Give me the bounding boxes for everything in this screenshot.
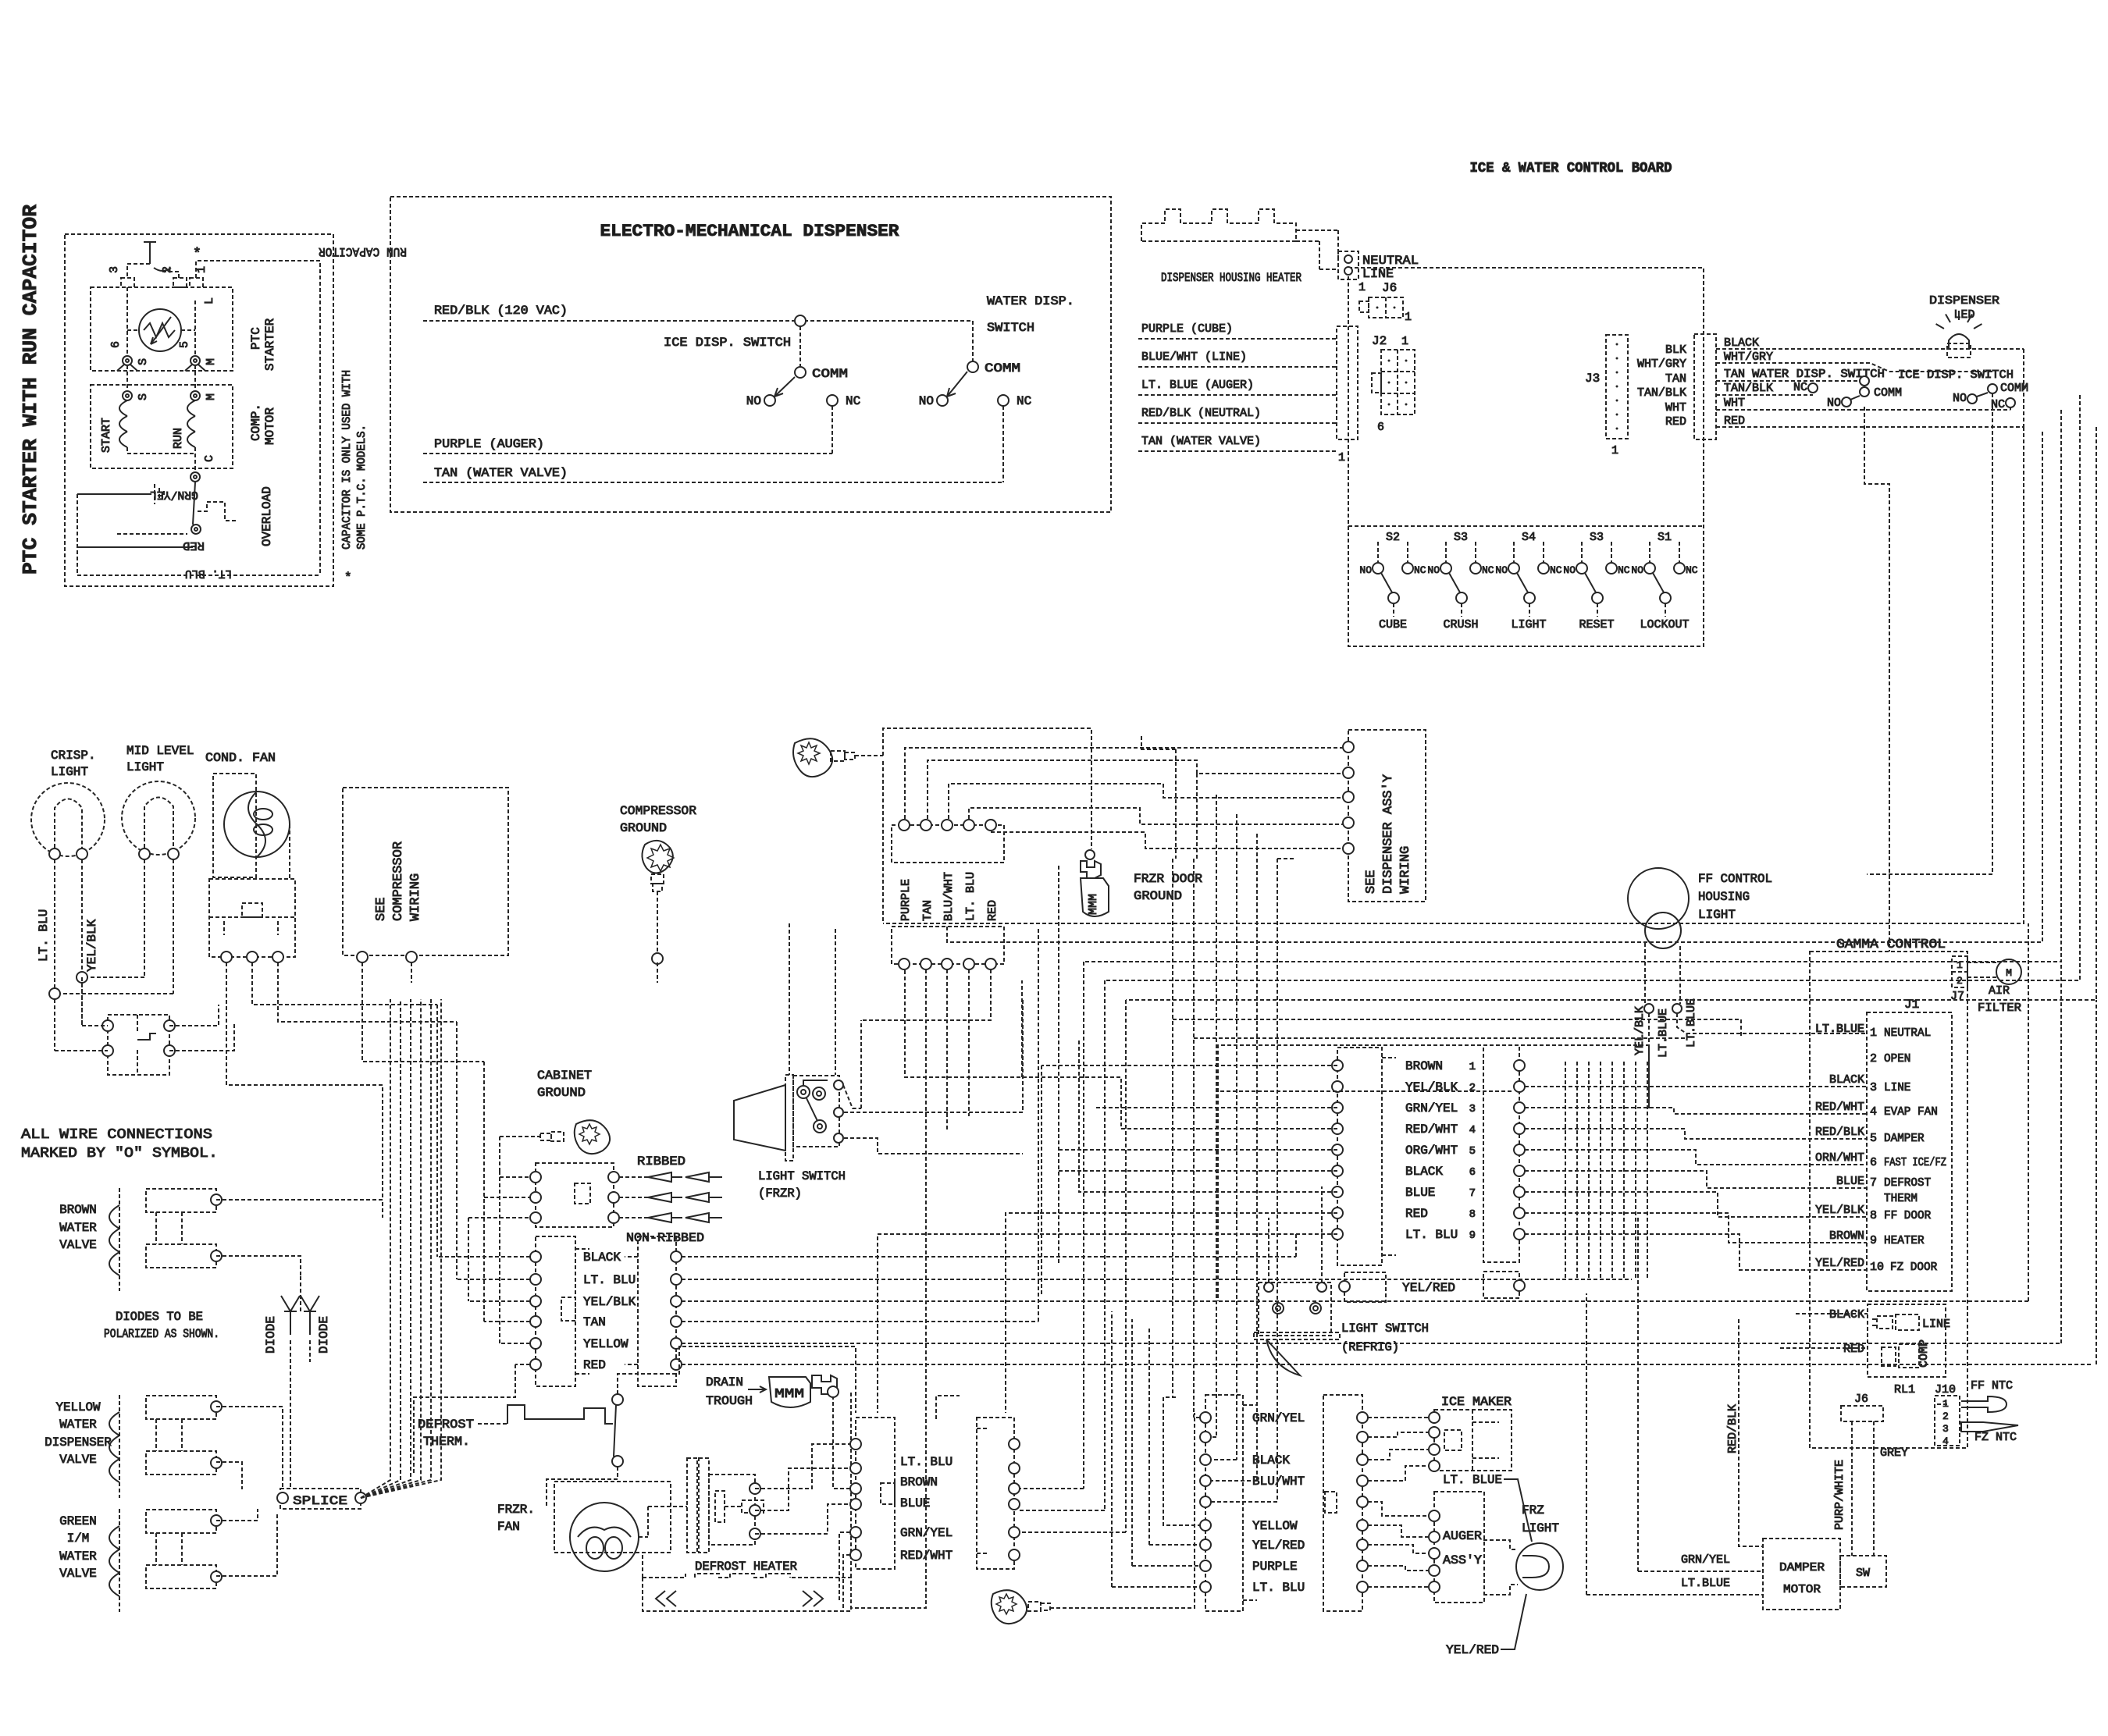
svg-text:RED: RED — [1665, 415, 1686, 429]
svg-text:BLUE/WHT (LINE): BLUE/WHT (LINE) — [1141, 350, 1247, 364]
svg-text:YELLOW: YELLOW — [1252, 1519, 1298, 1533]
svg-text:RED: RED — [1724, 414, 1745, 428]
svg-text:LIGHT: LIGHT — [126, 760, 164, 774]
svg-text:J3: J3 — [1585, 372, 1600, 386]
svg-text:DAMPER: DAMPER — [1779, 1561, 1825, 1574]
svg-text:BROWN: BROWN — [1829, 1229, 1864, 1243]
svg-text:YEL/BLK: YEL/BLK — [583, 1295, 636, 1309]
svg-text:1: 1 — [1338, 451, 1345, 464]
svg-text:COMPRESSOR: COMPRESSOR — [620, 804, 696, 818]
svg-text:I/M: I/M — [67, 1531, 90, 1546]
svg-text:LT.BLUE: LT.BLUE — [1685, 998, 1698, 1048]
svg-text:S3: S3 — [1590, 531, 1604, 544]
svg-text:DAMPER: DAMPER — [1884, 1132, 1925, 1145]
svg-text:6: 6 — [1870, 1156, 1877, 1169]
svg-text:1: 1 — [195, 266, 208, 273]
svg-text:RED: RED — [986, 900, 999, 921]
svg-text:NC: NC — [1414, 564, 1426, 576]
svg-text:RESET: RESET — [1579, 618, 1614, 631]
svg-text:C: C — [203, 455, 216, 462]
svg-text:DEFROST HEATER: DEFROST HEATER — [695, 1560, 797, 1574]
svg-text:WATER: WATER — [59, 1549, 97, 1563]
svg-text:BLACK: BLACK — [1724, 336, 1759, 350]
svg-text:CUBE: CUBE — [1379, 618, 1407, 631]
svg-text:6: 6 — [1377, 421, 1384, 434]
svg-text:RED/BLK: RED/BLK — [1726, 1404, 1739, 1453]
svg-text:(REFRIG): (REFRIG) — [1341, 1340, 1399, 1354]
svg-text:S: S — [137, 358, 150, 365]
svg-text:VALVE: VALVE — [59, 1238, 97, 1252]
svg-text:PURPLE (AUGER): PURPLE (AUGER) — [434, 437, 544, 451]
svg-text:1: 1 — [1469, 1061, 1476, 1073]
svg-text:GROUND: GROUND — [1134, 889, 1182, 903]
svg-text:NO: NO — [1359, 564, 1372, 576]
svg-text:STARTER: STARTER — [263, 318, 277, 371]
svg-text:VALVE: VALVE — [59, 1567, 97, 1581]
svg-text:LOCKOUT: LOCKOUT — [1640, 618, 1689, 631]
svg-text:NO: NO — [1563, 564, 1576, 576]
svg-text:YEL/RED: YEL/RED — [1252, 1539, 1305, 1553]
svg-text:BLK: BLK — [1665, 343, 1686, 357]
svg-text:5: 5 — [1870, 1132, 1877, 1145]
svg-text:1: 1 — [1611, 444, 1618, 457]
svg-text:YELLOW: YELLOW — [56, 1400, 101, 1414]
svg-text:NC: NC — [1017, 394, 1031, 408]
svg-text:ALL WIRE CONNECTIONS: ALL WIRE CONNECTIONS — [21, 1127, 212, 1143]
svg-text:LIGHT SWITCH: LIGHT SWITCH — [1341, 1322, 1429, 1336]
svg-text:RED: RED — [183, 539, 205, 552]
svg-text:DISPENSER: DISPENSER — [1929, 294, 1999, 308]
svg-text:TAN (WATER VALVE): TAN (WATER VALVE) — [434, 466, 568, 480]
svg-text:NC: NC — [1550, 564, 1562, 576]
svg-text:1: 1 — [1405, 311, 1412, 324]
svg-text:M: M — [2006, 967, 2012, 979]
svg-text:NO: NO — [919, 394, 934, 408]
svg-text:ICE DISP. SWITCH: ICE DISP. SWITCH — [664, 336, 791, 350]
svg-text:SW: SW — [1856, 1567, 1870, 1580]
svg-text:NO: NO — [1427, 564, 1440, 576]
svg-text:RED: RED — [1843, 1343, 1864, 1356]
svg-text:COMM: COMM — [985, 361, 1020, 375]
svg-text:COMM: COMM — [2000, 382, 2028, 395]
svg-text:FAST ICE/FZ: FAST ICE/FZ — [1884, 1156, 1946, 1169]
svg-text:BROWN: BROWN — [900, 1475, 938, 1489]
svg-text:RUN CAPACITOR: RUN CAPACITOR — [319, 244, 407, 258]
svg-text:THERM.: THERM. — [423, 1435, 470, 1449]
svg-text:LT.BLUE: LT.BLUE — [1657, 1009, 1670, 1058]
svg-text:FZ NTC: FZ NTC — [1974, 1431, 2017, 1444]
svg-text:SEE: SEE — [1364, 870, 1379, 894]
svg-text:M: M — [205, 393, 218, 400]
svg-text:J2: J2 — [1372, 334, 1387, 348]
svg-text:RED/BLK (120 VAC): RED/BLK (120 VAC) — [434, 304, 568, 318]
svg-text:NC: NC — [1482, 564, 1494, 576]
svg-text:YEL/BLK: YEL/BLK — [1815, 1204, 1864, 1217]
svg-text:2: 2 — [1469, 1082, 1476, 1094]
svg-text:GAMMA CONTROL: GAMMA CONTROL — [1836, 937, 1946, 952]
svg-text:PTC: PTC — [249, 327, 263, 350]
svg-text:TAN: TAN — [921, 900, 935, 921]
svg-text:J6: J6 — [1854, 1393, 1868, 1406]
svg-text:NC: NC — [1686, 564, 1698, 576]
svg-text:4: 4 — [1942, 1435, 1949, 1447]
svg-text:SWITCH: SWITCH — [987, 321, 1034, 335]
svg-text:NEUTRAL: NEUTRAL — [1884, 1026, 1931, 1040]
svg-text:3: 3 — [1942, 1423, 1949, 1435]
svg-text:YEL/BLK: YEL/BLK — [1405, 1080, 1458, 1094]
svg-text:RIBBED: RIBBED — [637, 1154, 685, 1169]
svg-text:*: * — [344, 571, 352, 585]
svg-text:WIRING: WIRING — [408, 873, 423, 921]
svg-text:8: 8 — [1870, 1209, 1877, 1222]
svg-text:COMM: COMM — [812, 367, 848, 381]
svg-text:ORN/WHT: ORN/WHT — [1815, 1151, 1864, 1165]
svg-text:GROUND: GROUND — [537, 1086, 586, 1100]
svg-text:YEL/RED: YEL/RED — [1815, 1257, 1864, 1270]
svg-text:LINE: LINE — [1922, 1318, 1950, 1331]
svg-text:COMPRESSOR: COMPRESSOR — [391, 841, 406, 921]
svg-text:WATER DISP.: WATER DISP. — [987, 294, 1074, 308]
svg-text:9: 9 — [1870, 1234, 1877, 1247]
svg-text:COMP: COMP — [1917, 1339, 1931, 1368]
svg-text:COMP.: COMP. — [249, 404, 263, 441]
svg-text:NO: NO — [1495, 564, 1508, 576]
svg-text:CABINET: CABINET — [537, 1069, 592, 1083]
svg-text:YELLOW: YELLOW — [583, 1337, 628, 1351]
svg-text:FF DOOR: FF DOOR — [1884, 1209, 1931, 1222]
svg-text:WATER: WATER — [59, 1221, 97, 1235]
svg-text:LINE: LINE — [1884, 1081, 1910, 1094]
svg-text:ORG/WHT: ORG/WHT — [1405, 1144, 1458, 1158]
svg-text:1: 1 — [1401, 335, 1408, 348]
svg-text:2: 2 — [161, 266, 174, 273]
svg-text:6: 6 — [109, 341, 123, 348]
svg-text:RED/BLK (NEUTRAL): RED/BLK (NEUTRAL) — [1141, 407, 1261, 420]
svg-text:COND. FAN: COND. FAN — [205, 751, 276, 765]
svg-text:S2: S2 — [1386, 531, 1400, 544]
svg-text:LT.BLUE: LT.BLUE — [1815, 1023, 1864, 1036]
svg-text:LT. BLUE: LT. BLUE — [1443, 1473, 1502, 1487]
svg-text:FF CONTROL: FF CONTROL — [1698, 872, 1772, 886]
svg-text:FAN: FAN — [497, 1520, 520, 1534]
svg-text:LIGHT: LIGHT — [51, 765, 88, 779]
svg-text:J10: J10 — [1935, 1383, 1956, 1396]
svg-text:5: 5 — [1469, 1145, 1476, 1158]
svg-text:MARKED BY "O" SYMBOL.: MARKED BY "O" SYMBOL. — [21, 1146, 218, 1161]
svg-text:COMM: COMM — [1874, 386, 1902, 400]
svg-text:GREEN: GREEN — [59, 1514, 97, 1528]
svg-text:PURP/WHITE: PURP/WHITE — [1833, 1460, 1846, 1530]
svg-text:J6: J6 — [1382, 281, 1397, 295]
svg-text:CRUSH: CRUSH — [1443, 618, 1478, 631]
svg-text:PURPLE (CUBE): PURPLE (CUBE) — [1141, 322, 1233, 336]
svg-text:RED: RED — [1405, 1207, 1428, 1221]
svg-text:TROUGH: TROUGH — [706, 1394, 753, 1408]
svg-text:CRISP.: CRISP. — [51, 749, 96, 763]
svg-text:FRZR DOOR: FRZR DOOR — [1134, 872, 1202, 886]
svg-text:2: 2 — [1942, 1410, 1949, 1422]
svg-text:S1: S1 — [1658, 531, 1672, 544]
svg-text:S4: S4 — [1522, 531, 1536, 544]
svg-text:MOTOR: MOTOR — [263, 407, 277, 445]
svg-text:WATER: WATER — [59, 1418, 97, 1432]
svg-text:VALVE: VALVE — [59, 1453, 97, 1467]
svg-text:NC: NC — [1618, 564, 1630, 576]
svg-text:8: 8 — [1469, 1208, 1476, 1221]
svg-text:WIRING: WIRING — [1398, 846, 1413, 894]
svg-text:MMM: MMM — [1087, 894, 1100, 915]
svg-text:MID LEVEL: MID LEVEL — [126, 744, 194, 758]
svg-text:6: 6 — [1469, 1166, 1476, 1179]
svg-text:GREY: GREY — [1880, 1446, 1908, 1460]
svg-text:7: 7 — [1870, 1176, 1877, 1190]
svg-text:WHT/GRY: WHT/GRY — [1637, 358, 1686, 371]
svg-text:BROWN: BROWN — [59, 1203, 97, 1217]
svg-text:TAN: TAN — [1665, 372, 1686, 386]
svg-text:YEL/BLK: YEL/BLK — [1633, 1006, 1647, 1055]
svg-text:GROUND: GROUND — [620, 821, 667, 835]
svg-text:GRN/YEL: GRN/YEL — [150, 488, 198, 501]
svg-text:RED: RED — [583, 1358, 606, 1372]
svg-text:3: 3 — [1469, 1103, 1476, 1115]
svg-text:CAPACITOR IS ONLY USED WITH: CAPACITOR IS ONLY USED WITH — [340, 370, 354, 550]
svg-text:BLU/WHT: BLU/WHT — [1252, 1475, 1305, 1489]
svg-text:BLACK: BLACK — [1405, 1165, 1443, 1179]
svg-text:LT. BLU: LT. BLU — [964, 872, 977, 921]
svg-text:MMM: MMM — [774, 1387, 804, 1402]
svg-text:L: L — [203, 297, 216, 304]
svg-text:DIODE: DIODE — [264, 1316, 278, 1354]
svg-text:HOUSING: HOUSING — [1698, 890, 1750, 904]
svg-text:1: 1 — [1870, 1026, 1877, 1040]
svg-text:1: 1 — [1358, 281, 1366, 294]
svg-text:DRAIN: DRAIN — [706, 1375, 743, 1389]
svg-text:LINE: LINE — [1362, 267, 1394, 281]
svg-text:RED/WHT: RED/WHT — [1405, 1122, 1458, 1137]
svg-text:(FRZR): (FRZR) — [758, 1186, 802, 1201]
svg-text:3: 3 — [108, 266, 121, 273]
svg-text:PURPLE: PURPLE — [899, 879, 913, 921]
svg-text:S: S — [137, 393, 150, 400]
svg-text:NO: NO — [1953, 392, 1967, 405]
svg-text:DISPENSER ASS'Y: DISPENSER ASS'Y — [1381, 774, 1396, 894]
svg-text:2: 2 — [1870, 1052, 1877, 1065]
svg-text:FZ DOOR: FZ DOOR — [1890, 1261, 1937, 1274]
svg-text:DISPENSER: DISPENSER — [45, 1435, 112, 1450]
svg-text:ASS'Y: ASS'Y — [1443, 1553, 1482, 1567]
svg-text:BLACK: BLACK — [1829, 1308, 1864, 1322]
svg-text:WHT/GRY: WHT/GRY — [1724, 350, 1773, 364]
svg-text:NO: NO — [1827, 397, 1841, 410]
svg-text:5: 5 — [178, 341, 191, 348]
svg-text:FILTER: FILTER — [1978, 1001, 2021, 1015]
svg-text:RED/BLK: RED/BLK — [1815, 1126, 1864, 1139]
svg-text:ICE MAKER: ICE MAKER — [1441, 1395, 1512, 1409]
svg-text:MOTOR: MOTOR — [1783, 1583, 1821, 1596]
svg-text:AUGER: AUGER — [1443, 1529, 1482, 1543]
svg-text:ICE & WATER CONTROL BOARD: ICE & WATER CONTROL BOARD — [1470, 161, 1672, 176]
svg-text:LT. BLU: LT. BLU — [1252, 1581, 1305, 1595]
svg-text:BLUE: BLUE — [1836, 1175, 1864, 1188]
svg-text:TAN/BLK: TAN/BLK — [1724, 382, 1773, 395]
svg-text:OVERLOAD: OVERLOAD — [260, 486, 274, 546]
svg-text:BLUE: BLUE — [1405, 1186, 1435, 1200]
svg-text:AIR: AIR — [1989, 984, 2010, 998]
svg-text:POLARIZED AS SHOWN.: POLARIZED AS SHOWN. — [104, 1327, 219, 1341]
svg-text:3: 3 — [1870, 1081, 1877, 1094]
svg-text:FRZR.: FRZR. — [497, 1503, 535, 1517]
svg-text:START: START — [100, 418, 113, 453]
svg-text:SEE: SEE — [374, 897, 389, 921]
svg-text:M: M — [205, 358, 218, 365]
svg-text:BLACK: BLACK — [583, 1250, 621, 1265]
svg-text:J7: J7 — [1950, 990, 1964, 1003]
svg-text:RED/WHT: RED/WHT — [1815, 1101, 1864, 1114]
svg-text:9: 9 — [1469, 1229, 1476, 1242]
svg-text:BLU/WHT: BLU/WHT — [942, 872, 956, 921]
svg-text:TAN/BLK: TAN/BLK — [1637, 386, 1686, 400]
svg-text:BROWN: BROWN — [1405, 1059, 1443, 1073]
svg-text:NO: NO — [1631, 564, 1643, 576]
svg-text:4: 4 — [1469, 1124, 1476, 1137]
svg-text:LIGHT: LIGHT — [1698, 908, 1736, 922]
svg-text:LT. BLU: LT. BLU — [583, 1273, 636, 1287]
svg-text:4: 4 — [1870, 1105, 1877, 1119]
svg-text:LT. BLU: LT. BLU — [1405, 1228, 1458, 1242]
svg-text:SOME P.T.C. MODELS.: SOME P.T.C. MODELS. — [355, 425, 369, 550]
svg-text:SPLICE: SPLICE — [293, 1494, 347, 1508]
svg-text:ICE DISP. SWITCH: ICE DISP. SWITCH — [1898, 368, 2014, 382]
svg-text:GRN/YEL: GRN/YEL — [1252, 1411, 1305, 1425]
svg-text:TAN: TAN — [1724, 368, 1745, 381]
svg-text:DISPENSER HOUSING HEATER: DISPENSER HOUSING HEATER — [1161, 271, 1301, 285]
svg-text:NO: NO — [746, 394, 761, 408]
svg-text:DEFROST: DEFROST — [1884, 1176, 1931, 1190]
svg-text:ELECTRO-MECHANICAL DISPENSER: ELECTRO-MECHANICAL DISPENSER — [600, 222, 900, 241]
svg-text:BLACK: BLACK — [1829, 1073, 1864, 1087]
svg-text:WHT: WHT — [1665, 401, 1686, 414]
svg-text:DIODES TO BE: DIODES TO BE — [116, 1310, 203, 1324]
svg-text:LT. BLU: LT. BLU — [185, 567, 232, 580]
svg-text:7: 7 — [1469, 1187, 1476, 1200]
svg-text:FF NTC: FF NTC — [1971, 1379, 2013, 1393]
svg-text:EVAP FAN: EVAP FAN — [1884, 1105, 1938, 1119]
svg-text:GRN/YEL: GRN/YEL — [1681, 1553, 1730, 1567]
svg-text:RL1: RL1 — [1894, 1383, 1915, 1396]
svg-text:LT. BLUE (AUGER): LT. BLUE (AUGER) — [1141, 379, 1254, 392]
svg-text:THERM: THERM — [1884, 1192, 1917, 1205]
svg-text:LIGHT: LIGHT — [1511, 618, 1546, 631]
svg-text:TAN (WATER VALVE): TAN (WATER VALVE) — [1141, 435, 1261, 448]
svg-text:PTC STARTER WITH RUN CAPACITOR: PTC STARTER WITH RUN CAPACITOR — [19, 205, 42, 575]
svg-text:NC: NC — [846, 394, 860, 408]
svg-text:NEUTRAL: NEUTRAL — [1362, 254, 1419, 268]
svg-text:PURPLE: PURPLE — [1252, 1560, 1298, 1574]
svg-text:OPEN: OPEN — [1884, 1052, 1910, 1065]
svg-text:RUN: RUN — [172, 428, 185, 449]
svg-text:10: 10 — [1870, 1261, 1884, 1274]
svg-text:BLACK: BLACK — [1252, 1453, 1290, 1467]
svg-text:HEATER: HEATER — [1884, 1234, 1925, 1247]
svg-text:TAN: TAN — [583, 1315, 606, 1329]
svg-text:WHT: WHT — [1724, 397, 1745, 410]
svg-text:YEL/RED: YEL/RED — [1446, 1643, 1499, 1657]
svg-text:S3: S3 — [1454, 531, 1468, 544]
svg-text:YEL/BLK: YEL/BLK — [85, 919, 99, 972]
svg-text:DEFROST: DEFROST — [418, 1418, 474, 1432]
svg-text:LT.BLUE: LT.BLUE — [1681, 1577, 1730, 1590]
svg-text:GRN/YEL: GRN/YEL — [1405, 1101, 1458, 1115]
svg-text:DIODE: DIODE — [317, 1316, 331, 1354]
svg-text:YEL/RED: YEL/RED — [1402, 1281, 1455, 1295]
svg-text:LIGHT SWITCH: LIGHT SWITCH — [758, 1169, 846, 1183]
svg-text:LT. BLU: LT. BLU — [37, 909, 51, 962]
svg-text:NC: NC — [1793, 381, 1807, 394]
